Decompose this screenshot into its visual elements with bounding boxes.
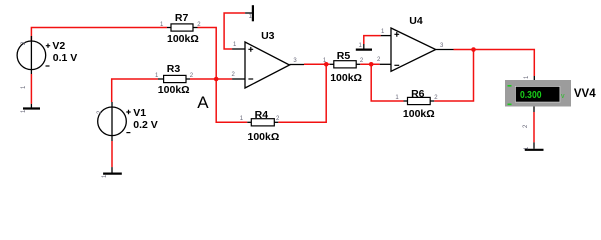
svg-text:v: v bbox=[561, 93, 565, 100]
